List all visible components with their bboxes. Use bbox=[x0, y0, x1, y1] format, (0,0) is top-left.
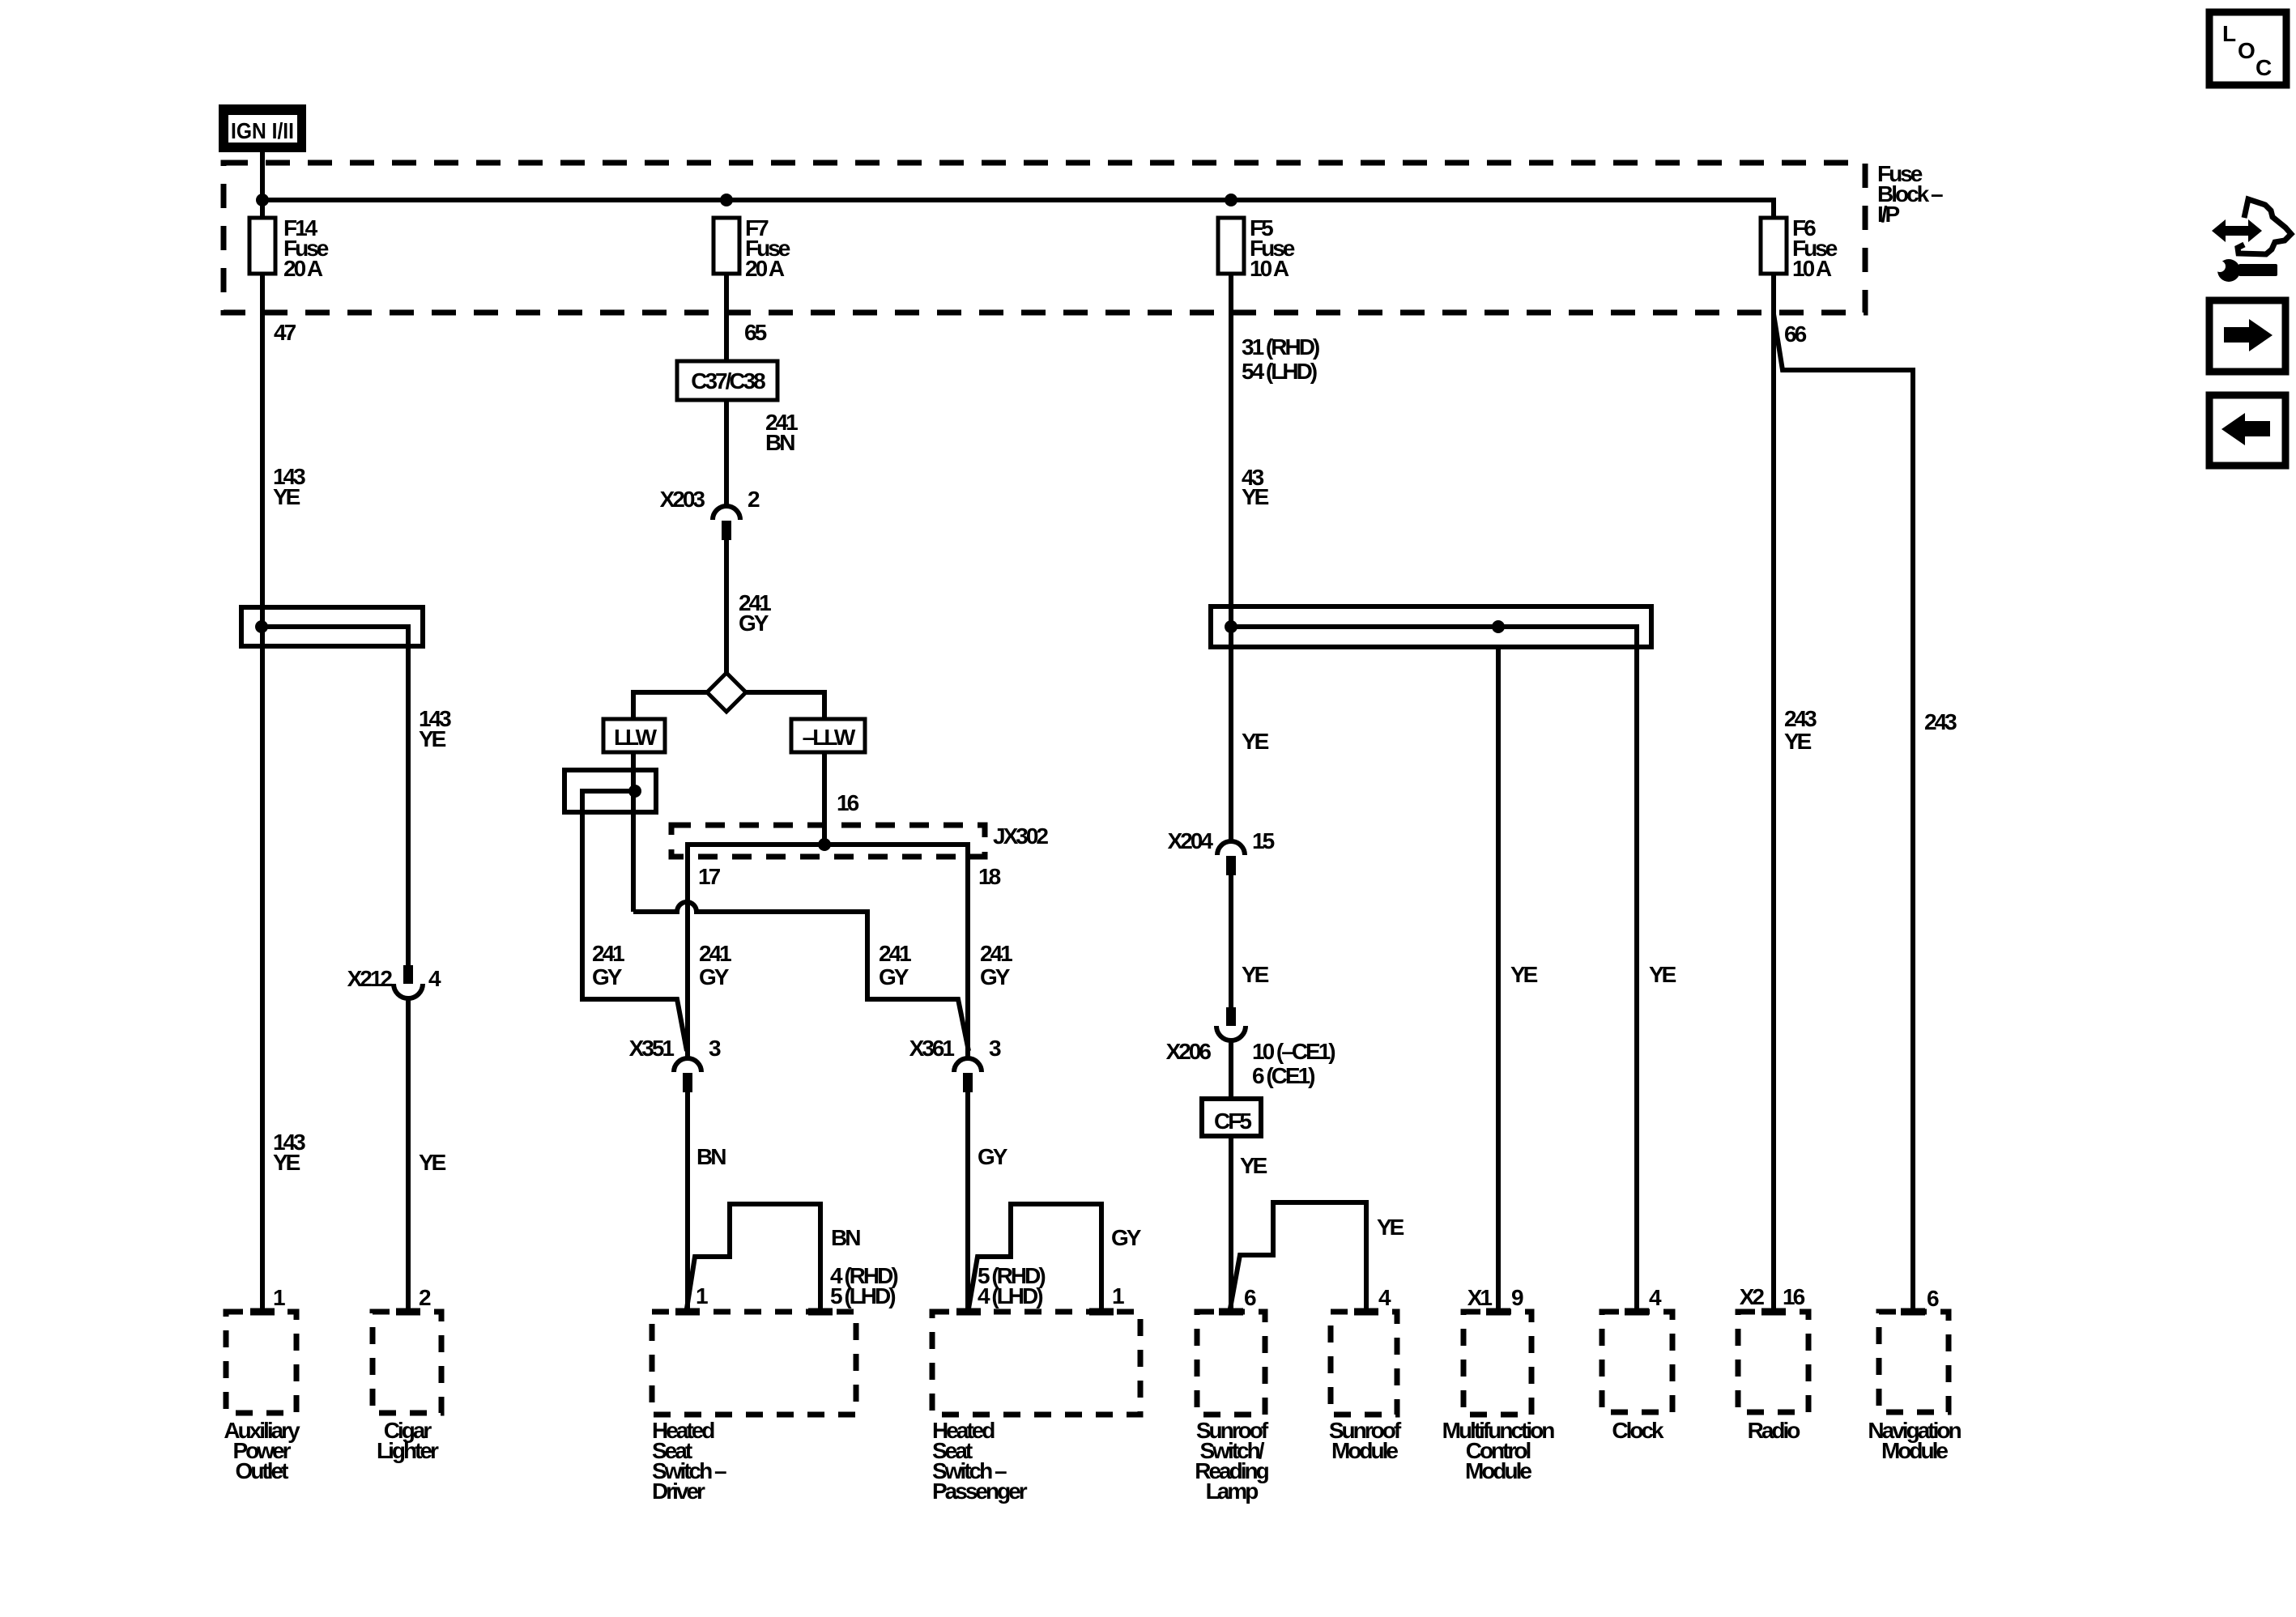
node splice dot sunroof junction left bbox=[1225, 620, 1237, 633]
splice diamond bbox=[707, 673, 746, 712]
wire BN jumper loop driver (pin 1 to pin 4/5) bbox=[687, 1204, 820, 1308]
node junction dot at F5 bbox=[1225, 194, 1237, 206]
wire 43 YE from fuse F5 down bbox=[1229, 274, 1233, 841]
svg-text:Module: Module bbox=[1331, 1438, 1398, 1463]
svg-text:YE: YE bbox=[273, 1150, 300, 1175]
connector C37/C38 bbox=[677, 361, 777, 400]
svg-text:Passenger: Passenger bbox=[932, 1479, 1028, 1504]
svg-text:243: 243 bbox=[1784, 706, 1817, 731]
svg-text:JX302: JX302 bbox=[993, 823, 1048, 849]
svg-text:Lighter: Lighter bbox=[377, 1438, 439, 1463]
wire YE jumper loop sunroof (pin 6 to sunroof module pin 4) bbox=[1230, 1202, 1366, 1308]
wire label 241 GY (LLW run) bbox=[879, 941, 911, 989]
svg-text:O: O bbox=[2238, 38, 2255, 63]
svg-text:C37/C38: C37/C38 bbox=[691, 368, 765, 394]
svg-text:X351: X351 bbox=[629, 1036, 675, 1061]
splice pass-through box (aux/cigar junction) bbox=[241, 607, 423, 646]
svg-text:65: 65 bbox=[744, 320, 767, 345]
svg-text:241: 241 bbox=[980, 941, 1012, 966]
wire label 241 GY (junction branch) bbox=[592, 941, 624, 989]
svg-text:54 (LHD): 54 (LHD) bbox=[1242, 359, 1317, 384]
svg-text:18: 18 bbox=[978, 864, 1001, 889]
svg-text:GY: GY bbox=[592, 964, 623, 989]
svg-text:YE: YE bbox=[1649, 962, 1676, 987]
svg-text:BN: BN bbox=[765, 430, 794, 455]
svg-text:I/P: I/P bbox=[1877, 202, 1900, 227]
svg-text:YE: YE bbox=[1242, 962, 1269, 987]
svg-text:GY: GY bbox=[739, 611, 769, 636]
svg-text:6 (CE1): 6 (CE1) bbox=[1252, 1063, 1314, 1088]
wire YE from X204 to X206 bbox=[1229, 875, 1233, 1007]
wire 143 YE from fuse F14 down to auxiliary power outlet bbox=[260, 274, 265, 1308]
icon arrow right box bbox=[2209, 300, 2285, 372]
component clock dashed box bbox=[1602, 1312, 1672, 1443]
svg-text:IGN I/II: IGN I/II bbox=[231, 118, 294, 143]
fuse F14 20A bbox=[249, 215, 329, 281]
svg-text:YE: YE bbox=[1784, 729, 1812, 754]
component heated seat switch passenger dashed box bbox=[932, 1312, 1140, 1504]
wire 241 GY from LLW run with hop to X361 bbox=[633, 902, 969, 1051]
wire 243 branch from pin 66 to navigation module bbox=[1774, 314, 1913, 1308]
wire branch 241 GY from splice to X351 bbox=[582, 791, 687, 1051]
svg-text:Radio: Radio bbox=[1748, 1418, 1801, 1443]
svg-text:15: 15 bbox=[1252, 828, 1275, 853]
svg-text:10 A: 10 A bbox=[1792, 256, 1832, 281]
svg-text:YE: YE bbox=[1377, 1215, 1404, 1240]
component cigar lighter dashed box bbox=[373, 1312, 441, 1463]
connector X361 pin 3 bbox=[909, 1036, 1001, 1092]
component navigation module dashed box bbox=[1868, 1312, 1961, 1463]
svg-text:Outlet: Outlet bbox=[236, 1458, 289, 1483]
svg-text:BN: BN bbox=[831, 1225, 860, 1250]
svg-text:LLW: LLW bbox=[614, 725, 658, 750]
icon data link connector (arrow + outline + wrench) bbox=[2212, 199, 2291, 282]
component radio dashed box bbox=[1738, 1312, 1808, 1443]
svg-text:BN: BN bbox=[696, 1144, 726, 1169]
pin 31/54 label bbox=[1242, 334, 1319, 384]
node junction dot at F7 bbox=[720, 194, 733, 206]
svg-text:YE: YE bbox=[1240, 1153, 1267, 1178]
svg-text:X206: X206 bbox=[1166, 1039, 1212, 1064]
wire 243 YE from fuse F6 to radio bbox=[1771, 274, 1776, 1308]
svg-text:GY: GY bbox=[699, 964, 730, 989]
connector X204 pin 15 bbox=[1168, 828, 1275, 875]
svg-text:Module: Module bbox=[1881, 1438, 1948, 1463]
wire YE from junction to multifunction control module bbox=[1496, 647, 1501, 1308]
svg-text:4 (LHD): 4 (LHD) bbox=[978, 1283, 1042, 1308]
svg-text:Clock: Clock bbox=[1612, 1418, 1664, 1443]
svg-text:YE: YE bbox=[1510, 962, 1538, 987]
fuse block label bbox=[1877, 161, 1943, 227]
svg-text:66: 66 bbox=[1784, 321, 1807, 347]
svg-text:GY: GY bbox=[980, 964, 1011, 989]
svg-text:YE: YE bbox=[1242, 729, 1269, 754]
svg-text:243: 243 bbox=[1924, 709, 1957, 734]
svg-text:17: 17 bbox=[698, 864, 721, 889]
svg-text:16: 16 bbox=[837, 790, 859, 815]
splice pass-through box (sunroof junction) bbox=[1211, 606, 1651, 647]
node splice dot heated seat junction bbox=[628, 785, 641, 798]
svg-text:241: 241 bbox=[592, 941, 624, 966]
svg-text:GY: GY bbox=[879, 964, 909, 989]
fuse block I/P dashed box bbox=[224, 163, 1865, 313]
splice pass-through box (heated seat junction) bbox=[564, 770, 656, 812]
node dot JX302 bbox=[818, 838, 831, 851]
wire from fuse F7 to connector C37/C38 bbox=[724, 274, 729, 361]
junction block JX302 dashed box bbox=[671, 825, 985, 857]
wire label 143 YE cigar branch bbox=[419, 706, 451, 751]
svg-text:YE: YE bbox=[273, 484, 300, 509]
wire internal bus of sunroof junction bbox=[1231, 627, 1637, 647]
svg-text:241: 241 bbox=[699, 941, 731, 966]
option box LLW bbox=[603, 719, 665, 752]
wire label 243 YE radio bbox=[1784, 706, 1817, 754]
svg-text:20 A: 20 A bbox=[745, 256, 785, 281]
fuse F7 20A bbox=[714, 215, 790, 281]
wire label 241 GY (pin 17) bbox=[699, 941, 731, 989]
wire YE from CF5 to sunroof switch pin 6 bbox=[1229, 1136, 1233, 1308]
svg-text:GY: GY bbox=[1111, 1225, 1142, 1250]
svg-text:X212: X212 bbox=[347, 966, 393, 991]
icon arrow left box bbox=[2209, 395, 2285, 466]
svg-text:–LLW: –LLW bbox=[803, 725, 856, 750]
wire 16 from -LLW to JX302 bbox=[822, 752, 827, 845]
option box -LLW bbox=[791, 719, 865, 752]
icon LOC box bbox=[2209, 12, 2286, 85]
svg-text:YE: YE bbox=[1242, 484, 1269, 509]
node splice dot in junction box bbox=[255, 620, 268, 633]
component heated seat switch driver dashed box bbox=[652, 1312, 856, 1504]
wire label 241 BN bbox=[765, 410, 798, 455]
svg-text:241: 241 bbox=[879, 941, 911, 966]
svg-text:X2: X2 bbox=[1740, 1284, 1765, 1309]
wire label 241 GY bbox=[739, 590, 771, 636]
svg-text:10 A: 10 A bbox=[1250, 256, 1289, 281]
svg-text:16: 16 bbox=[1783, 1284, 1805, 1309]
wire label 143 YE upper bbox=[273, 464, 305, 509]
wire branch from splice to cigar lighter bbox=[262, 627, 408, 965]
bus wire inside fuse block bbox=[262, 200, 1774, 218]
connector X206 pin 10/6 bbox=[1166, 1007, 1335, 1088]
wire 241 GY from X203 to splice diamond bbox=[724, 540, 729, 673]
wire from diamond to LLW bbox=[633, 692, 707, 719]
component multifunction control module dashed box bbox=[1442, 1312, 1555, 1483]
svg-text:YE: YE bbox=[419, 1150, 446, 1175]
wire JX302 internal bus pins 17-18 bbox=[688, 845, 968, 1058]
pin 4/5 label driver bbox=[830, 1263, 897, 1308]
svg-text:31 (RHD): 31 (RHD) bbox=[1242, 334, 1319, 360]
component sunroof switch / reading lamp dashed box bbox=[1195, 1312, 1269, 1504]
connector CF5 bbox=[1202, 1099, 1261, 1136]
fuse F6 10A bbox=[1761, 215, 1838, 281]
wire from X206 to CF5 bbox=[1229, 1039, 1233, 1099]
svg-text:X203: X203 bbox=[660, 487, 705, 512]
node splice dot sunroof junction mid bbox=[1492, 620, 1505, 633]
svg-text:5 (LHD): 5 (LHD) bbox=[830, 1283, 895, 1308]
fuse F5 10A bbox=[1218, 215, 1295, 281]
svg-text:X204: X204 bbox=[1168, 828, 1214, 853]
wire GY from X361 to heated seat switch passenger bbox=[965, 1092, 970, 1308]
wire from IGN I/II to bus bbox=[260, 152, 265, 218]
node junction dot at F14 bbox=[256, 194, 269, 206]
connector X351 pin 3 bbox=[629, 1036, 721, 1092]
wire GY jumper loop passenger (pin 5/4 to pin 1) bbox=[969, 1204, 1101, 1308]
svg-text:10 (–CE1): 10 (–CE1) bbox=[1252, 1039, 1335, 1064]
wire YE from X212 to cigar lighter bbox=[406, 997, 411, 1308]
wire from diamond to -LLW bbox=[746, 692, 824, 719]
component auxiliary power outlet dashed box bbox=[224, 1312, 300, 1483]
svg-text:Driver: Driver bbox=[652, 1479, 705, 1504]
svg-text:C: C bbox=[2256, 55, 2272, 80]
wire 241 BN from C37/C38 to X203 bbox=[724, 400, 729, 507]
wire label 143 YE lower aux bbox=[273, 1130, 305, 1175]
wire YE from junction to clock bbox=[1634, 647, 1639, 1308]
pin X2 16 label radio bbox=[1740, 1284, 1805, 1309]
svg-text:GY: GY bbox=[978, 1144, 1008, 1169]
svg-text:CF5: CF5 bbox=[1214, 1108, 1251, 1134]
svg-text:Lamp: Lamp bbox=[1206, 1479, 1259, 1504]
svg-text:X1: X1 bbox=[1467, 1285, 1493, 1310]
svg-text:47: 47 bbox=[274, 320, 296, 345]
wire BN from X351 to heated seat switch driver pin 1 bbox=[685, 1092, 690, 1308]
pin X1 9 label multifunction bbox=[1467, 1285, 1523, 1310]
wire label 43 YE bbox=[1242, 465, 1269, 509]
wire label 241 GY (pin 18) bbox=[980, 941, 1012, 989]
power source IGN I/II bbox=[219, 104, 306, 152]
wire from LLW down through splice box bbox=[631, 752, 636, 912]
svg-text:X361: X361 bbox=[909, 1036, 955, 1061]
connector X203 pin 2 bbox=[660, 487, 760, 540]
svg-text:YE: YE bbox=[419, 726, 446, 751]
svg-text:20 A: 20 A bbox=[283, 256, 323, 281]
svg-text:Module: Module bbox=[1465, 1458, 1531, 1483]
connector X212 pin 4 bbox=[347, 965, 441, 998]
component sunroof module dashed box bbox=[1329, 1312, 1402, 1463]
pin 5/4 label passenger bbox=[978, 1263, 1045, 1308]
